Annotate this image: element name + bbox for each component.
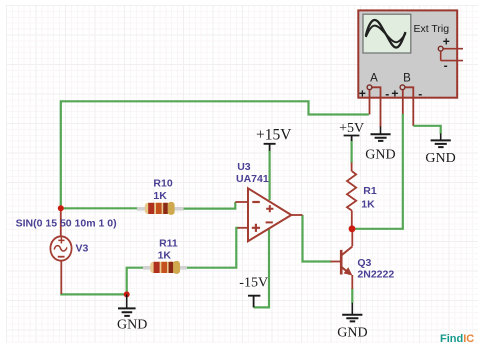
svg-text:-: - [418,87,422,101]
svg-text:UA741: UA741 [236,173,269,185]
svg-text:+: + [359,87,366,101]
svg-text:GND: GND [425,151,455,166]
svg-text:A: A [370,73,378,85]
svg-text:GND: GND [117,318,147,333]
svg-text:2N2222: 2N2222 [357,268,394,280]
svg-text:GND: GND [365,148,395,163]
svg-text:V3: V3 [76,243,89,255]
svg-text:U3: U3 [237,161,251,173]
svg-text:1K: 1K [158,250,172,262]
svg-text:R10: R10 [153,177,172,189]
svg-text:R11: R11 [159,237,178,249]
svg-text:+5V: +5V [339,121,364,136]
svg-text:1K: 1K [361,199,375,211]
svg-text:R1: R1 [363,185,377,197]
svg-text:FindIC: FindIC [440,333,474,345]
svg-text:-: - [385,87,389,101]
svg-text:Q3: Q3 [357,257,371,269]
svg-text:+: + [443,35,450,49]
svg-text:-15V: -15V [239,275,268,290]
svg-text:GND: GND [337,325,367,340]
svg-text:B: B [403,73,411,85]
svg-text:-: - [444,59,448,73]
svg-text:SIN(0 15 50 10m 1 0): SIN(0 15 50 10m 1 0) [16,218,117,230]
svg-text:+15V: +15V [256,127,292,144]
svg-text:+: + [391,87,398,101]
svg-text:Ext Trig: Ext Trig [414,23,450,35]
svg-text:1K: 1K [153,190,167,202]
